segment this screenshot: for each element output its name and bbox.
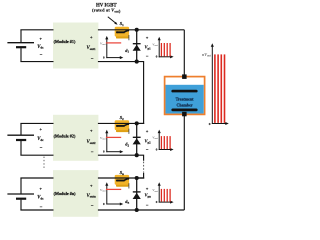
- svg-text:Vout1: Vout1: [87, 46, 97, 51]
- waveform Vp2 pulse train: [160, 136, 162, 149]
- svg-text:0: 0: [209, 122, 211, 126]
- switch Sn lead stub: [128, 183, 130, 188]
- wire: bottom rail module 1 (box to diode node): [98, 61, 137, 63]
- wire: bottom rail module n (box to diode node): [98, 209, 184, 211]
- waveform Vout1 axes: [106, 39, 108, 58]
- diode d2: [136, 123, 138, 155]
- svg-text:Chamber: Chamber: [176, 103, 192, 108]
- svg-text:−: −: [91, 56, 94, 61]
- switch S1 blade and contacts: [116, 31, 124, 33]
- waveform Voutn axes: [106, 185, 108, 204]
- svg-text:(Module #2): (Module #2): [54, 133, 76, 138]
- waveform Vp2 axes: [158, 133, 160, 151]
- electrode (bottom): [171, 109, 197, 112]
- svg-text:−: −: [91, 203, 94, 208]
- wire: bottom rail module n (battery - to box): [20, 209, 53, 211]
- svg-text:Vout2: Vout2: [87, 140, 97, 145]
- diode d1: [136, 30, 138, 62]
- waveform Voutn level line: [106, 188, 121, 190]
- treatment chamber liquid: [166, 85, 204, 114]
- svg-text:Treatment: Treatment: [176, 96, 195, 101]
- switch S2 blade and contacts: [116, 125, 124, 127]
- diode dn: [136, 178, 138, 210]
- switch S2 highlight: [116, 128, 129, 132]
- dc source V_dc module 2: [20, 123, 22, 135]
- annotation arrow to S1: [108, 17, 116, 23]
- wire: top rail module 1 (box to switch/diode node): [98, 29, 184, 31]
- wire: top rail module 2 (box to switch/diode node): [98, 122, 144, 124]
- waveform Vpn axes: [158, 185, 160, 203]
- svg-text:Vdc: Vdc: [37, 137, 44, 142]
- wire: bottom rail module 2 (box to diode node): [98, 154, 137, 156]
- svg-text:(Module #n): (Module #n): [54, 191, 77, 196]
- dashed continuation wire (omitted modules, left): [43, 157, 45, 170]
- wire: output bus top (node A1 to chamber): [183, 30, 185, 91]
- svg-text:Vdc: Vdc: [37, 196, 44, 201]
- wire: top rail module 2 (battery + to box): [20, 122, 53, 124]
- waveform Vp1 axes: [158, 40, 160, 58]
- module box #n: [53, 170, 98, 217]
- dc source V_dc module n: [20, 178, 22, 194]
- svg-text:(rated at Vout): (rated at Vout): [92, 8, 121, 14]
- switch S1 highlight: [116, 34, 129, 38]
- node A1 (switch/diode junction): [135, 28, 139, 32]
- switch Sn blade and contacts: [116, 180, 124, 182]
- wire: node B1 to module 2 top rail: [136, 62, 144, 124]
- svg-text:(Module #1): (Module #1): [54, 39, 76, 44]
- wire: top rail module n (battery + to box): [20, 177, 53, 179]
- node A2 (switch/diode junction): [135, 121, 139, 125]
- wire: node B2 to connector (dashed continuation): [137, 155, 144, 161]
- waveform Vout1 level line: [106, 42, 121, 44]
- svg-text:−: −: [40, 52, 43, 57]
- chamber terminal (bottom): [182, 112, 187, 117]
- node B2 (diode anode junction): [135, 153, 139, 157]
- wire: output bus bottom (chamber to module n rail): [183, 110, 185, 210]
- node B1 (diode anode junction): [135, 60, 139, 64]
- waveform Vp1 pulse train: [160, 43, 162, 56]
- module box #1: [53, 23, 98, 69]
- svg-text:−: −: [91, 149, 94, 154]
- dc source V_dc module 1: [20, 30, 22, 43]
- waveform Vpn pulse train: [160, 189, 162, 202]
- switch Sn highlight: [116, 183, 129, 187]
- chamber terminal (top): [182, 74, 187, 79]
- wire: top rail module 1 (battery + to box): [20, 29, 53, 31]
- wire: bottom rail module 1 (battery - to box): [20, 61, 53, 63]
- node Bn (diode anode junction): [135, 208, 139, 212]
- wire: bottom rail module 2 (battery - to box): [20, 154, 53, 156]
- switch S2 lead stub: [128, 129, 130, 134]
- wire: connector to module n top rail: [136, 173, 144, 178]
- output waveform axes: [211, 46, 213, 123]
- treatment chamber vessel: [165, 77, 205, 115]
- svg-text:Vdc: Vdc: [37, 45, 44, 50]
- waveform Vout2 axes: [106, 133, 108, 153]
- wire: top rail module n (box to switch/diode node): [98, 177, 144, 179]
- svg-text:−: −: [40, 205, 43, 210]
- electrode (top): [171, 90, 197, 93]
- module box #2: [53, 115, 98, 161]
- dashed continuation wire (omitted modules, right): [143, 162, 145, 173]
- node An (switch/diode junction): [135, 176, 139, 180]
- svg-text:Voutn: Voutn: [87, 194, 97, 199]
- waveform Vout2 level line: [106, 136, 121, 138]
- output pulse train nVout: [214, 54, 216, 123]
- svg-text:nVout: nVout: [202, 52, 211, 58]
- svg-text:−: −: [40, 145, 43, 150]
- switch S1 lead stub: [128, 35, 130, 40]
